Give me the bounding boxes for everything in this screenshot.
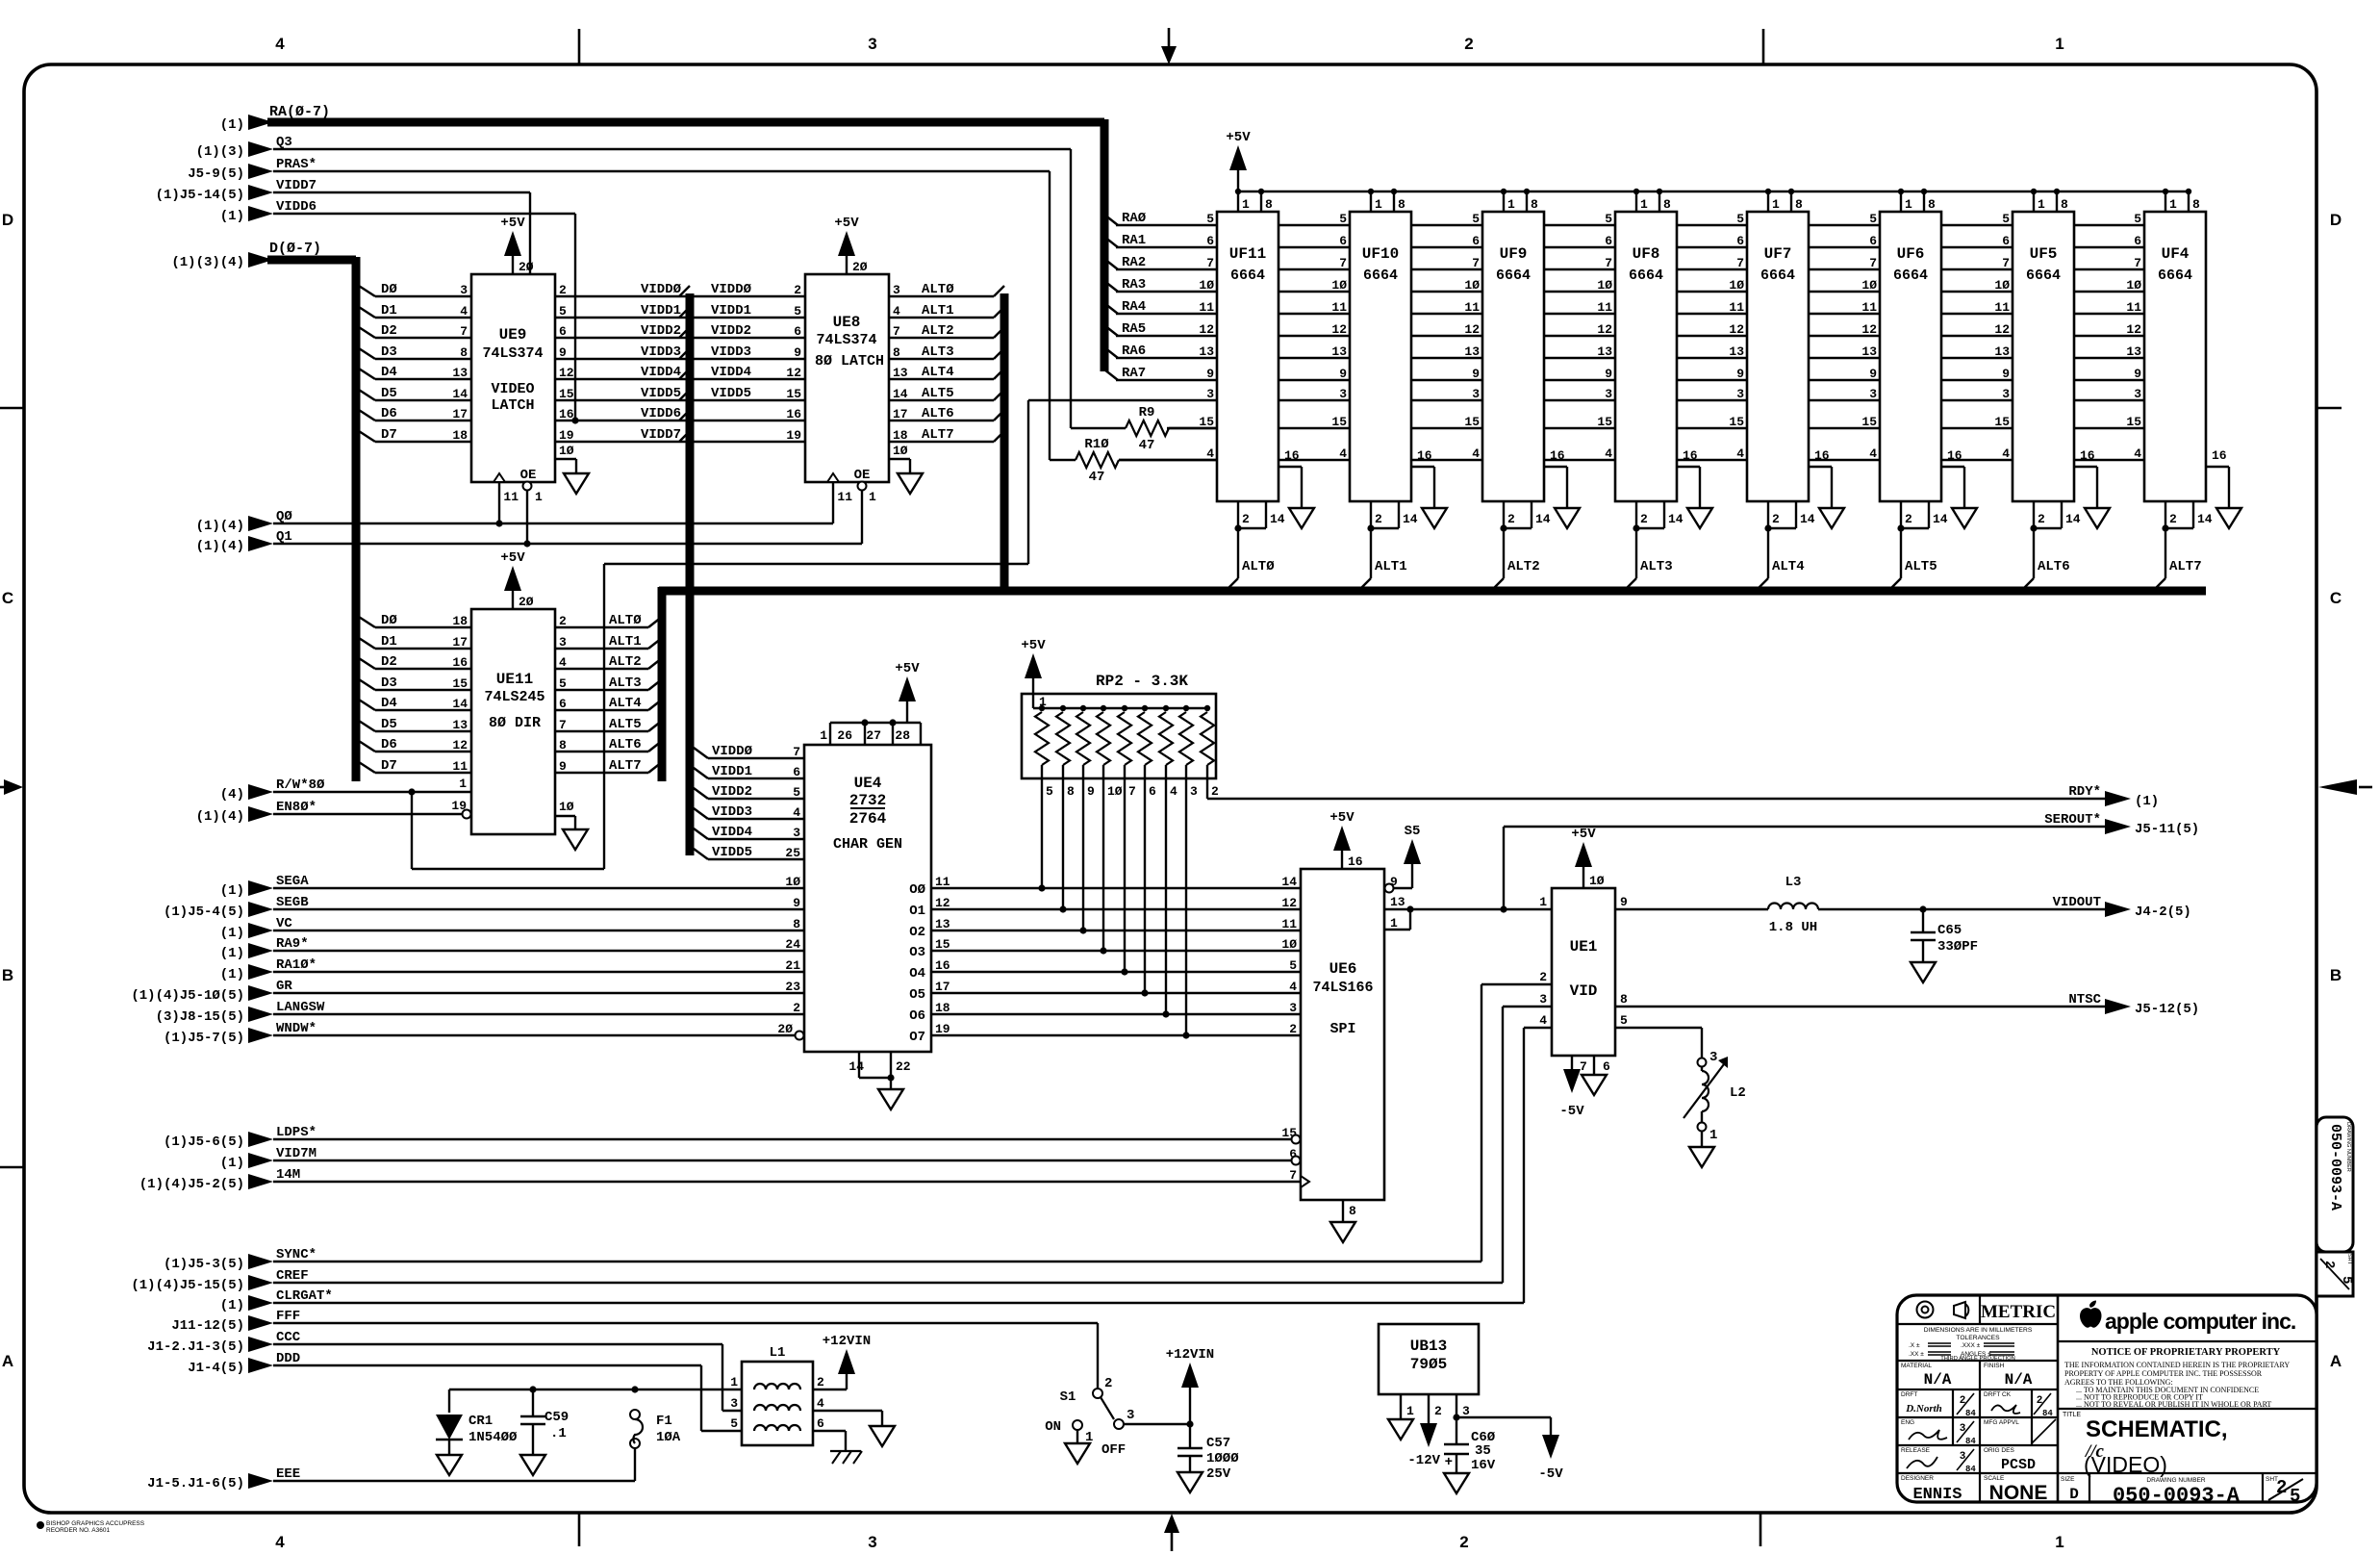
- IC UE6 74LS166 serial shift register: [1281, 869, 1405, 1222]
- svg-text:15: 15: [1861, 415, 1877, 429]
- svg-text:1: 1: [459, 777, 467, 791]
- wire CREF to UE1 pin 3: [131, 1007, 1552, 1293]
- wire UE11 pin 8 to ALT6 bus: [555, 737, 662, 752]
- wire LANGSW to UE4: [156, 1000, 835, 1025]
- svg-text:S5: S5: [1405, 824, 1421, 839]
- svg-text:2: 2: [559, 614, 567, 628]
- svg-text:A: A: [2330, 1352, 2342, 1370]
- svg-text:1: 1: [1539, 895, 1547, 909]
- svg-text:9: 9: [1736, 367, 1744, 381]
- wire L1 pin 4 to ground: [813, 1411, 882, 1426]
- svg-text:(1)(4): (1)(4): [196, 519, 244, 534]
- svg-text:ALT7: ALT7: [2169, 559, 2202, 574]
- svg-text:B: B: [2330, 966, 2342, 984]
- svg-text:14: 14: [2197, 512, 2213, 526]
- wire D1 to UE9 pin 4: [359, 303, 471, 319]
- svg-text:RA9*: RA9*: [276, 936, 309, 952]
- net ALT7 from UE8 pin 18: [889, 427, 1004, 443]
- svg-text:D2: D2: [381, 654, 397, 670]
- wire VID7M to UE6 pin 6: [220, 1146, 1291, 1171]
- svg-text:13: 13: [1331, 344, 1347, 359]
- svg-text:ALT5: ALT5: [609, 717, 642, 732]
- svg-text:OFF: OFF: [1101, 1442, 1126, 1458]
- svg-text:3: 3: [1206, 387, 1214, 401]
- svg-text:2: 2: [1375, 512, 1382, 526]
- svg-text:(1): (1): [220, 883, 244, 899]
- svg-text:1: 1: [1772, 197, 1780, 212]
- svg-text:14: 14: [1281, 875, 1297, 889]
- svg-text:(1)(3)(4): (1)(3)(4): [171, 255, 244, 270]
- svg-text:DIMENSIONS ARE IN MILLIMETERS: DIMENSIONS ARE IN MILLIMETERS: [1924, 1327, 2033, 1334]
- svg-text:RA3: RA3: [1122, 277, 1146, 293]
- svg-text:3: 3: [730, 1396, 738, 1411]
- svg-text:ALT3: ALT3: [609, 676, 642, 691]
- wire D7 to UE9 pin 18: [359, 427, 471, 443]
- svg-text:EN8Ø*: EN8Ø*: [276, 800, 316, 815]
- svg-text:7: 7: [1736, 256, 1744, 270]
- svg-text:5: 5: [1472, 212, 1480, 226]
- memory IC UF8 6664 DRAM: [1597, 189, 1700, 590]
- svg-text:J5-12(5): J5-12(5): [2135, 1002, 2199, 1017]
- net RA6 fan from bus: [1104, 344, 1146, 359]
- svg-text:2Ø: 2Ø: [777, 1022, 793, 1036]
- IC UE4 2732/2764 character generator: [804, 719, 931, 1089]
- svg-text:RA(Ø-7): RA(Ø-7): [269, 104, 330, 120]
- svg-text:7: 7: [893, 324, 900, 339]
- svg-text:1: 1: [1375, 197, 1382, 212]
- svg-text:19: 19: [786, 428, 801, 443]
- svg-text:D6: D6: [381, 737, 397, 752]
- svg-text:SCHEMATIC,: SCHEMATIC,: [2086, 1416, 2228, 1442]
- svg-text:5: 5: [1289, 958, 1297, 973]
- svg-text:12: 12: [1199, 322, 1214, 337]
- svg-text:6: 6: [1603, 1059, 1610, 1074]
- svg-text:UB13: UB13: [1410, 1338, 1447, 1355]
- svg-text:VIDDØ: VIDDØ: [641, 282, 682, 297]
- power +12VIN at L1: [823, 1334, 871, 1374]
- IC UE11 74LS245 80-column driver: [451, 609, 588, 850]
- svg-text:1Ø: 1Ø: [893, 444, 908, 458]
- svg-text:(1): (1): [220, 946, 244, 961]
- svg-text:4: 4: [817, 1396, 824, 1411]
- svg-text:(1): (1): [2135, 794, 2159, 809]
- svg-text:26: 26: [837, 728, 852, 743]
- svg-text:ALT1: ALT1: [1375, 559, 1407, 574]
- svg-text:1Ø: 1Ø: [559, 800, 574, 814]
- ground at UF9 pin 16: [1555, 508, 1580, 528]
- svg-text:CREF: CREF: [276, 1268, 309, 1284]
- net ALT0 from UE8 pin 3: [889, 282, 1004, 297]
- svg-text:18: 18: [452, 428, 468, 443]
- svg-text:.XXX ±: .XXX ±: [1961, 1342, 1981, 1349]
- svg-text:4: 4: [1339, 446, 1347, 461]
- svg-text:UE11: UE11: [496, 671, 533, 688]
- svg-text:A: A: [2, 1352, 13, 1370]
- net VIDOUT output: [1818, 895, 2191, 920]
- wire RP2 pin 6 pullup to O5: [1141, 778, 1148, 997]
- svg-text:ENNIS: ENNIS: [1912, 1486, 1962, 1504]
- svg-text:SEROUT*: SEROUT*: [2044, 812, 2101, 828]
- svg-text:UF4: UF4: [2162, 245, 2190, 263]
- svg-text:1.8 UH: 1.8 UH: [1769, 920, 1817, 935]
- wire FFF to S1: [171, 1309, 1098, 1388]
- svg-text:13: 13: [893, 366, 908, 380]
- svg-text:VID: VID: [1570, 982, 1598, 1000]
- svg-text:15: 15: [1994, 415, 2010, 429]
- wire Q3: [196, 135, 1071, 428]
- svg-text:11: 11: [1861, 300, 1877, 315]
- svg-text:C: C: [2330, 589, 2342, 607]
- power +5V at UE11 pin 20: [500, 550, 533, 609]
- svg-text:12: 12: [1331, 322, 1347, 337]
- net RA2 fan from bus: [1104, 255, 1146, 270]
- svg-text:D: D: [2, 211, 13, 229]
- svg-text:14: 14: [848, 1059, 864, 1074]
- svg-text:MATERIAL: MATERIAL: [1901, 1363, 1932, 1369]
- svg-text:QØ: QØ: [276, 509, 292, 524]
- svg-text:13: 13: [1597, 344, 1612, 359]
- svg-text:(1): (1): [220, 209, 244, 224]
- power rail +5V for DRAM array: [1226, 130, 2189, 191]
- svg-text:(3)J8-15(5): (3)J8-15(5): [156, 1009, 244, 1025]
- wire D6 to UE11 pin 12: [359, 737, 471, 752]
- svg-text:(1): (1): [220, 967, 244, 982]
- svg-text:5: 5: [1046, 784, 1053, 799]
- net RA1 fan from bus: [1104, 233, 1146, 248]
- svg-text:D4: D4: [381, 365, 397, 380]
- svg-text:4: 4: [559, 655, 567, 670]
- wire D3 to UE9 pin 8: [359, 344, 471, 360]
- svg-text:74LS166: 74LS166: [1312, 980, 1373, 996]
- svg-text:11: 11: [1199, 300, 1214, 315]
- svg-text:VIDDØ: VIDDØ: [711, 282, 752, 297]
- svg-text:6664: 6664: [2158, 268, 2192, 284]
- svg-text:VIDEO: VIDEO: [491, 381, 534, 397]
- svg-text:J1-2.J1-3(5): J1-2.J1-3(5): [147, 1339, 244, 1355]
- svg-text:4: 4: [793, 805, 800, 820]
- svg-text:VIDD1: VIDD1: [641, 303, 681, 319]
- svg-text:RDY*: RDY*: [2068, 784, 2101, 800]
- svg-text:N/A: N/A: [2005, 1371, 2033, 1389]
- svg-text:C59: C59: [544, 1410, 569, 1425]
- wire D5 to UE11 pin 13: [359, 717, 471, 732]
- svg-text:ALT7: ALT7: [609, 758, 642, 774]
- svg-text:SHT: SHT: [2346, 1254, 2352, 1265]
- ground at L1 pin 4: [870, 1426, 895, 1446]
- svg-text:5: 5: [2134, 212, 2141, 226]
- svg-text:3: 3: [2134, 387, 2141, 401]
- svg-text:12: 12: [452, 738, 468, 752]
- svg-text:RA1: RA1: [1122, 233, 1146, 248]
- svg-text:D4: D4: [381, 696, 397, 711]
- svg-text:L1: L1: [770, 1345, 786, 1361]
- svg-text:DRFT CK: DRFT CK: [1984, 1391, 2012, 1398]
- svg-text:35: 35: [1475, 1443, 1491, 1459]
- svg-text:6: 6: [817, 1416, 824, 1431]
- wire VIDD3 to UE4 pin 4: [694, 804, 826, 828]
- svg-text:D5: D5: [381, 717, 397, 732]
- svg-text:84: 84: [1965, 1465, 1976, 1474]
- power +5V at RP2 pin 1: [1021, 638, 1047, 709]
- svg-text:12: 12: [1281, 896, 1297, 910]
- svg-text:5: 5: [793, 785, 800, 800]
- net VIDD0 row: [555, 282, 805, 297]
- svg-text:17: 17: [893, 407, 908, 421]
- net DRAM row pin 9: [1116, 379, 2144, 381]
- svg-text:18: 18: [452, 614, 468, 628]
- svg-text:6: 6: [1149, 784, 1156, 799]
- svg-text:2: 2: [559, 283, 567, 297]
- svg-text:13: 13: [2126, 344, 2141, 359]
- svg-text:ALT1: ALT1: [609, 634, 642, 650]
- net DRAM row pin 12: [1116, 335, 2144, 337]
- power +5V at UE6 pin 16: [1329, 810, 1362, 869]
- inductor L3 1.8 UH: [1615, 875, 1818, 935]
- svg-text:D.North: D.North: [1905, 1403, 1942, 1415]
- svg-text:UF10: UF10: [1362, 245, 1399, 263]
- wire CCC to L1 pin 3: [147, 1330, 742, 1411]
- svg-text:5: 5: [794, 304, 801, 319]
- svg-text:8: 8: [793, 917, 800, 931]
- svg-text:3: 3: [1472, 387, 1480, 401]
- svg-text:9: 9: [794, 345, 801, 360]
- svg-text:1: 1: [535, 490, 543, 504]
- svg-text:13: 13: [1729, 344, 1744, 359]
- power +5V at UE1 pin 10: [1571, 827, 1604, 888]
- svg-text:NTSC: NTSC: [2068, 992, 2101, 1007]
- wire EEE to F1: [147, 1447, 635, 1491]
- svg-text:6: 6: [1736, 234, 1744, 248]
- svg-text:PROPERTY OF APPLE COMPUTER INC: PROPERTY OF APPLE COMPUTER INC. THE POSS…: [2064, 1369, 2263, 1378]
- svg-text:L2: L2: [1730, 1085, 1746, 1101]
- net VIDD1 row: [555, 303, 805, 319]
- svg-text:7: 7: [793, 745, 800, 759]
- svg-text:12: 12: [935, 896, 950, 910]
- resistor pack RP2 3.3K: [1022, 673, 1219, 799]
- svg-text:(4): (4): [220, 787, 244, 803]
- svg-text:UF7: UF7: [1764, 245, 1792, 263]
- svg-text:84: 84: [1965, 1409, 1976, 1418]
- svg-text:(VIDEO): (VIDEO): [2084, 1452, 2167, 1477]
- net DRAM row pin 1Ø: [1116, 291, 2144, 293]
- svg-text:(1)(4): (1)(4): [196, 539, 244, 554]
- svg-text:15: 15: [1729, 415, 1744, 429]
- wire D4 to UE11 pin 14: [359, 696, 471, 711]
- svg-text:6: 6: [1605, 234, 1612, 248]
- svg-text:UE8: UE8: [833, 314, 861, 331]
- svg-text:7: 7: [559, 718, 567, 732]
- svg-text:PCSD: PCSD: [2001, 1457, 2036, 1473]
- wire D2 to UE11 pin 16: [359, 654, 471, 670]
- svg-text:5: 5: [730, 1416, 738, 1431]
- svg-text:+5V: +5V: [834, 216, 859, 231]
- svg-text:N/A: N/A: [1924, 1371, 1952, 1389]
- svg-text:3: 3: [1462, 1404, 1470, 1418]
- svg-text:2Ø: 2Ø: [519, 260, 534, 274]
- svg-text:RA7: RA7: [1122, 366, 1146, 381]
- svg-text:VID7M: VID7M: [276, 1146, 316, 1161]
- svg-text:4: 4: [275, 1533, 285, 1551]
- svg-text:8: 8: [2192, 197, 2200, 212]
- svg-text:6: 6: [1339, 234, 1347, 248]
- svg-text:DRAWING NUMBER: DRAWING NUMBER: [2345, 1122, 2351, 1172]
- svg-text:8: 8: [1398, 197, 1405, 212]
- svg-text:9: 9: [1087, 784, 1095, 799]
- svg-text:VIDD5: VIDD5: [641, 386, 681, 401]
- svg-text:1: 1: [2055, 35, 2064, 53]
- svg-text:ALT3: ALT3: [922, 344, 954, 360]
- net VIDD5 row: [555, 386, 805, 401]
- ground at UF5 pin 16: [2085, 508, 2110, 528]
- svg-text:9: 9: [559, 345, 567, 360]
- svg-text:+5V: +5V: [1021, 638, 1046, 653]
- net O4: UE4 pin 16 to UE6 pin 5: [909, 958, 1301, 981]
- svg-text:74LS245: 74LS245: [484, 689, 544, 705]
- svg-text:3: 3: [1709, 1050, 1717, 1065]
- svg-text:6: 6: [2002, 234, 2010, 248]
- svg-text:16: 16: [2080, 448, 2095, 463]
- svg-text:11: 11: [1729, 300, 1744, 315]
- svg-text:2: 2: [1104, 1376, 1112, 1391]
- wire UB13 pin 3 to -5V: [1456, 1417, 1551, 1434]
- svg-text:ALT7: ALT7: [922, 427, 954, 443]
- svg-text:SPI: SPI: [1329, 1021, 1355, 1037]
- svg-text:13: 13: [1390, 895, 1405, 909]
- power S5 arrow: [1404, 824, 1421, 864]
- svg-text:9: 9: [1869, 367, 1877, 381]
- svg-text:ALT6: ALT6: [922, 406, 954, 421]
- svg-text:RA5: RA5: [1122, 321, 1146, 337]
- svg-text:D1: D1: [381, 634, 397, 650]
- svg-text:14: 14: [1800, 512, 1815, 526]
- wire DDD to L1 pin 5: [188, 1351, 742, 1431]
- svg-text:UE4: UE4: [854, 775, 882, 792]
- svg-text:47: 47: [1089, 470, 1105, 485]
- svg-text:7: 7: [1580, 1059, 1587, 1074]
- wire RA9* to UE4: [220, 936, 826, 961]
- svg-text:1Ø: 1Ø: [1331, 278, 1347, 293]
- svg-text:11: 11: [452, 759, 468, 774]
- svg-text:13: 13: [452, 718, 468, 732]
- svg-text:METRIC: METRIC: [1981, 1302, 2056, 1322]
- memory IC UF9 6664 DRAM: [1464, 189, 1567, 590]
- wire UE11 pin 6 to ALT4 bus: [555, 696, 662, 711]
- svg-text:6664: 6664: [1629, 268, 1663, 284]
- svg-text:14: 14: [2065, 512, 2081, 526]
- svg-text:1: 1: [1507, 197, 1515, 212]
- svg-text:3: 3: [1339, 387, 1347, 401]
- net DRAM row pin 13: [1116, 357, 2144, 359]
- svg-text:16: 16: [786, 407, 801, 421]
- svg-text:+12VIN: +12VIN: [1166, 1347, 1214, 1363]
- svg-text:4: 4: [1206, 446, 1214, 461]
- ground at UF10 pin 16: [1422, 508, 1447, 528]
- svg-text:9: 9: [2134, 367, 2141, 381]
- svg-text:THE INFORMATION CONTAINED HERE: THE INFORMATION CONTAINED HEREIN IS THE …: [2064, 1361, 2290, 1369]
- svg-text:1Ø: 1Ø: [1597, 278, 1612, 293]
- wire UE1 pin 5 to L2: [1615, 1028, 1702, 1058]
- svg-text:2: 2: [793, 1001, 800, 1015]
- wire VIDD2 to UE4 pin 5: [694, 784, 826, 808]
- svg-text:7: 7: [2002, 256, 2010, 270]
- svg-text:8: 8: [559, 738, 567, 752]
- svg-text:14: 14: [452, 387, 468, 401]
- svg-text:24: 24: [785, 937, 800, 952]
- net DRAM row pin 4: [1119, 459, 2144, 461]
- net O7: UE4 pin 19 to UE6 pin 2: [909, 1022, 1301, 1045]
- svg-text:1Ø: 1Ø: [559, 444, 574, 458]
- svg-text:(1)J5-7(5): (1)J5-7(5): [164, 1031, 244, 1046]
- svg-text:3: 3: [893, 283, 900, 297]
- svg-text:050-0093-A: 050-0093-A: [2113, 1484, 2241, 1508]
- svg-text:ALT5: ALT5: [1905, 559, 1937, 574]
- svg-text:6664: 6664: [2026, 268, 2061, 284]
- IC UE1 VID hybrid: [1539, 888, 1628, 1075]
- svg-text:VIDD7: VIDD7: [641, 427, 681, 443]
- wire VIDD1 to UE4 pin 6: [694, 764, 826, 788]
- wire VIDD0 to UE4 pin 7: [694, 744, 826, 768]
- ground at C65: [1911, 962, 1936, 982]
- svg-text:RELEASE: RELEASE: [1901, 1447, 1931, 1454]
- svg-text:1Ø: 1Ø: [1464, 278, 1480, 293]
- power -5V at UB13: [1538, 1434, 1563, 1482]
- svg-text:CR1: CR1: [468, 1414, 493, 1429]
- net DRAM row pin 6: [1116, 246, 2144, 248]
- svg-text:O2: O2: [909, 925, 925, 940]
- svg-text:11: 11: [1597, 300, 1612, 315]
- svg-text:2: 2: [1459, 1533, 1468, 1551]
- svg-text:9: 9: [559, 759, 567, 774]
- ground at UF11 pin 16: [1289, 508, 1314, 528]
- svg-text:VIDDØ: VIDDØ: [712, 744, 753, 759]
- capacitor C60 35 16V: [1444, 1417, 1496, 1473]
- wire SEGA to UE4: [220, 874, 827, 899]
- svg-text:7: 7: [1472, 256, 1480, 270]
- wire RA1Ø* to UE4: [220, 957, 835, 982]
- svg-text:8: 8: [893, 345, 900, 360]
- wire RP2 pin 9 pullup to O2: [1079, 778, 1086, 934]
- chassis ground at L1 pin 6: [830, 1451, 862, 1464]
- svg-text:NOTICE OF PROPRIETARY PROPERTY: NOTICE OF PROPRIETARY PROPERTY: [2091, 1347, 2281, 1358]
- wire RP2 pin 7 pullup to O4: [1121, 778, 1127, 976]
- svg-text:VIDD1: VIDD1: [711, 303, 751, 319]
- svg-text:(1)J5-4(5): (1)J5-4(5): [164, 905, 244, 920]
- svg-text:.1: .1: [550, 1426, 567, 1441]
- svg-text:RA6: RA6: [1122, 344, 1146, 359]
- svg-text:LATCH: LATCH: [491, 397, 534, 414]
- svg-text:VIDD3: VIDD3: [711, 344, 751, 360]
- svg-text:8: 8: [1795, 197, 1803, 212]
- svg-text:7: 7: [1206, 256, 1214, 270]
- svg-text:13: 13: [1464, 344, 1480, 359]
- svg-text:12: 12: [1597, 322, 1612, 337]
- svg-text:16: 16: [2212, 448, 2227, 463]
- wire SEGB to UE4: [164, 895, 826, 920]
- svg-text:UF8: UF8: [1633, 245, 1660, 263]
- svg-text:D: D: [2330, 211, 2342, 229]
- svg-text:15: 15: [559, 387, 574, 401]
- svg-text:2Ø: 2Ø: [852, 260, 868, 274]
- svg-text:12: 12: [786, 366, 801, 380]
- svg-text:VIDD5: VIDD5: [711, 386, 751, 401]
- power +5V at UE8 pin 20: [834, 216, 867, 274]
- svg-text:17: 17: [452, 407, 468, 421]
- svg-text:C65: C65: [1937, 923, 1962, 938]
- svg-text:+5V: +5V: [1226, 130, 1251, 145]
- svg-text:6: 6: [794, 324, 801, 339]
- svg-text:THIRD ANGLE PROJECTION: THIRD ANGLE PROJECTION: [1940, 1356, 2015, 1362]
- svg-text:+: +: [1445, 1455, 1453, 1470]
